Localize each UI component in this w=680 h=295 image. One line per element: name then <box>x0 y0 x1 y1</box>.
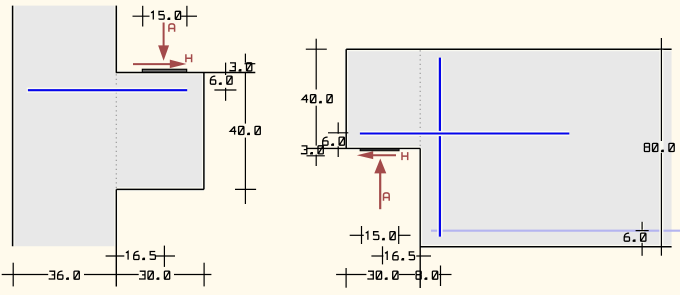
left bottom dim line <box>2 274 49 276</box>
left dim 16.5: text <box>126 251 155 259</box>
left dim 40.0: text <box>230 126 260 134</box>
right dim 15.0: right tick <box>398 226 400 244</box>
left dim 36.0: text <box>49 271 79 279</box>
right part: top edge <box>346 48 671 50</box>
left dim 15.0: right tick <box>186 6 188 27</box>
right part: notch right edge + extension down <box>419 148 421 288</box>
left arrow H: label <box>186 54 192 62</box>
left part: blue weld line halo <box>27 88 187 93</box>
right arrow A: shaft <box>379 172 381 209</box>
right part: outline white halos <box>346 47 671 51</box>
right dim 6.0: vertical dim line x338.2 <box>337 122 339 133</box>
right dim 8.0: text <box>416 271 438 279</box>
right dim 15.0: text <box>366 232 396 240</box>
right dim 40.0: top tick <box>306 48 327 50</box>
right dim 80.0: text <box>644 143 674 151</box>
right part: weld pad <box>360 149 399 151</box>
right part: blue vertical halo <box>437 58 442 237</box>
left dim 40.0: bottom tick <box>235 188 256 190</box>
right part: notch bottom surface + extension left <box>306 147 420 149</box>
right dim 6.0 bottom: text <box>624 233 646 241</box>
right dim 6.0: tick at weld line level <box>328 132 348 134</box>
left part: weld pad <box>142 69 186 72</box>
right dim 80.0: white halo <box>659 50 663 246</box>
left arrow A: head <box>158 45 169 60</box>
right part: blue horizontal line <box>360 133 569 135</box>
left part: outline white halos <box>11 6 15 247</box>
right part: blue vertical line <box>439 58 441 237</box>
right dim 40.0: text <box>302 95 332 103</box>
left dim 6.0: tick at weld line level <box>214 89 236 91</box>
right dim 8.0: right tick <box>440 266 442 287</box>
left arrow A: label <box>169 24 175 32</box>
right dim 6.0: text <box>323 137 345 145</box>
right arrow A: label <box>384 193 390 201</box>
right dim 3.0: text <box>302 146 324 154</box>
left dim 15.0: left tick <box>142 6 144 27</box>
right dim 15.0: dim line <box>350 234 364 236</box>
left part: step top surface + extension line <box>116 72 256 74</box>
left dim 6.0: vertical dim line x225.6 <box>225 63 227 75</box>
left dim 16.5: right tick <box>163 246 165 267</box>
right dim 6.0 bottom: vertical dim line x642.1 <box>641 222 643 230</box>
left arrow H: head <box>170 60 187 69</box>
left dim 30.0: text <box>140 271 170 279</box>
right part: left edge <box>345 49 347 148</box>
left part: left edge <box>12 6 14 247</box>
left part: section fill <box>13 6 204 247</box>
right arrow H: label <box>402 152 408 160</box>
left part: blue weld line <box>28 89 187 91</box>
right dim 16.5: left tick <box>382 246 384 264</box>
left dim 6.0: text <box>210 76 232 84</box>
right dim 30.0: text <box>368 271 398 279</box>
right dim 30.0/8.0: dim line <box>336 274 366 276</box>
right arrow H: head <box>357 151 373 159</box>
left dims: shared vertical dim line x245.4 <box>244 54 246 63</box>
right part: blue horizontal halo <box>360 131 569 136</box>
right part: dotted construction line <box>419 50 421 147</box>
right arrow H: shaft <box>371 154 396 156</box>
left part: step bottom edge <box>116 188 204 190</box>
left dim 3.0: text <box>230 63 252 71</box>
left part: dotted construction line <box>115 74 117 188</box>
left arrow H: shaft <box>133 63 172 65</box>
right dim 16.5: dim line <box>371 255 383 257</box>
left part: right edge of step <box>203 73 205 190</box>
left bottom dim: left tick <box>12 263 14 287</box>
left part: upper-right vertical edge <box>115 6 117 73</box>
right dim 16.5: text <box>385 252 415 260</box>
left part: lower vertical edge + extension to dims <box>115 189 117 286</box>
right dim 6.0 bottom: tick at lavender level <box>636 230 649 232</box>
right dim 80.0: vertical dim line x661.4 <box>660 38 662 141</box>
left dim 15.0: dim line <box>133 15 150 17</box>
left dim 3.0: upper tick <box>245 63 256 65</box>
right part: lavender line <box>431 230 680 232</box>
left arrow A: shaft <box>163 23 165 51</box>
right dim 15.0: left tick <box>361 226 363 244</box>
right dim 3.0: bottom tick <box>307 155 325 157</box>
right arrow A: head <box>374 159 386 174</box>
right dims 40.0/3.0: shared vertical dim line x316.2 <box>315 39 317 90</box>
right dim 30.0: left tick <box>345 268 347 288</box>
right part: section fill <box>346 49 671 247</box>
right part: bottom edge <box>420 246 671 248</box>
right dim 6.0 bottom: white halo <box>640 222 644 246</box>
left bottom dim: right tick <box>203 263 205 287</box>
left dim 16.5: dim line <box>106 255 125 257</box>
left dim 15.0: text <box>151 11 181 19</box>
